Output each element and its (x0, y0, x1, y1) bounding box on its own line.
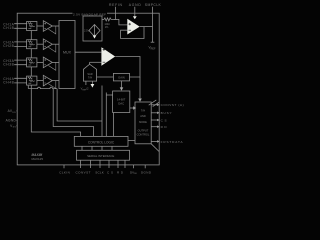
op-amp U3 plus mark (103, 48, 106, 51)
node VREF termination tick (151, 41, 155, 43)
wire control bus w1 from channel chain to control logic (31, 85, 80, 136)
input network box channel 4 (27, 76, 37, 85)
reference diamond symbol (89, 25, 100, 37)
wire CH1 inputs (14, 24, 26, 29)
wire rail left stub (27, 86, 29, 89)
svg-text:CONVST (A): CONVST (A) (161, 103, 184, 107)
svg-text:MAX125: MAX125 (32, 157, 44, 161)
svg-text:FRSTDATA: FRSTDATA (161, 140, 184, 144)
svg-text:GAIN: GAIN (118, 75, 125, 79)
arrowhead BUSY (157, 112, 159, 115)
wire REFCAP stub down to VREF net (152, 7, 154, 42)
wire box1 to buffer A1 (37, 25, 43, 27)
wire PGA net down to control block arrow (139, 77, 141, 99)
wire PGA output right and down (115, 57, 140, 78)
wire DAC to control box with arrow (130, 107, 134, 109)
sample block (house shape) (83, 64, 96, 81)
outer border frame of IC (17, 13, 159, 165)
wire house to gain box (97, 76, 114, 78)
wire box4 to buffer A4 (37, 80, 43, 82)
wire A2 output to MUX (52, 43, 59, 45)
wire A4 output to MUX (52, 80, 59, 82)
wire control bus w3 (57, 89, 102, 121)
bottom pin stubs from serial interface (81, 160, 126, 168)
svg-text:T/H: T/H (141, 109, 145, 113)
wire chain stub box3 down (30, 67, 32, 76)
wire CH2 inputs (14, 42, 26, 47)
arrow into T/H control box (138, 99, 142, 102)
wire DAC bottom down to control logic (113, 113, 115, 137)
pin wire FRSTDATA (151, 140, 157, 142)
wire ref box to resistor (102, 18, 104, 20)
arrow into control box (133, 106, 136, 110)
arrow into DAC (120, 87, 124, 90)
svg-text:DGND: DGND (141, 170, 152, 174)
node junction of REFIN pin (114, 18, 117, 20)
wire VMID rail to PGA minus input (90, 61, 102, 63)
wire AGND stub (16, 119, 19, 121)
svg-text:MUX: MUX (63, 51, 72, 55)
svg-text:T/H: T/H (88, 75, 92, 79)
bottom pin stub CLKIN (63, 165, 65, 168)
svg-text:MODE: MODE (139, 120, 147, 124)
svg-text:CH3B: CH3B (3, 62, 14, 66)
resistors inside box 2 (28, 41, 35, 47)
bus diagonal top right (149, 100, 160, 107)
svg-text:OUTPUT: OUTPUT (138, 128, 149, 132)
wire stubs control logic to serial interface (82, 146, 112, 150)
resistors inside box 1 (28, 23, 35, 29)
mux U1 box (59, 21, 75, 89)
svg-text:CS: CS (161, 118, 167, 122)
wire gain box down to DAC (121, 81, 123, 88)
svg-text:CONTROL LOGIC: CONTROL LOGIC (88, 141, 115, 145)
wire CH4 inputs (14, 78, 26, 83)
wire house bottom right stub (91, 81, 93, 84)
pin wire RD (151, 126, 157, 128)
svg-text:SAR: SAR (87, 72, 92, 76)
arrowhead FRSTDATA (157, 140, 159, 143)
svg-text:SCLK: SCLK (95, 170, 104, 174)
reference block box U5 (83, 16, 102, 41)
svg-text:CS: CS (107, 170, 113, 174)
wire MUX output to PGA plus input (75, 51, 101, 53)
input network box channel 1 (27, 22, 37, 31)
wire CH3 inputs (14, 60, 26, 65)
wire chain stub box2 down (30, 49, 32, 58)
pin wire CONVST (151, 104, 157, 106)
op-amp U2 plus mark (129, 23, 132, 25)
wire house apex to minus rail (89, 62, 91, 64)
wire box2 to buffer A2 (37, 43, 43, 45)
resistors inside box 3 (28, 59, 35, 65)
wire control bus v1 (101, 86, 103, 137)
op-amp A3 input marks (44, 59, 46, 65)
svg-text:SMPCLK: SMPCLK (145, 3, 162, 7)
wire control logic to T/H box (128, 140, 135, 142)
svg-text:RD: RD (117, 170, 124, 174)
op-amp A3 channel buffer (43, 57, 52, 68)
gain box (113, 73, 129, 81)
op-amp A4 input marks (44, 77, 46, 83)
wire control bus w2 (53, 89, 93, 137)
wire A4 feedback (48, 81, 55, 89)
pin wire BUSY (151, 112, 157, 114)
wire resistor to buffer + input (111, 19, 127, 25)
svg-text:SERIAL INTERFACE: SERIAL INTERFACE (87, 154, 114, 158)
bottom pin stub DGND (144, 165, 146, 168)
pin wire CS (151, 119, 157, 121)
svg-text:CH1B: CH1B (3, 26, 14, 30)
op-amp U2 minus mark (129, 29, 132, 31)
op-amp A2 channel buffer (43, 39, 52, 50)
svg-text:REFIN: REFIN (109, 3, 123, 7)
op-amp U3 minus mark (103, 61, 106, 63)
T/H and mode control box (135, 102, 151, 144)
wire house bottom left stub (85, 81, 87, 85)
svg-text:CLKIN: CLKIN (59, 170, 70, 174)
svg-text:DAC: DAC (118, 102, 124, 106)
ground arrow under house (91, 84, 95, 88)
wire A1 feedback (48, 26, 55, 34)
wire chain stub box1 down (30, 31, 32, 40)
svg-text:RD: RD (161, 125, 168, 129)
DAC box (113, 91, 130, 113)
arrowhead RD (157, 125, 159, 128)
svg-text:CH4B: CH4B (3, 81, 14, 85)
input network box channel 3 (27, 58, 37, 67)
wire A3 feedback (48, 62, 55, 70)
wire A1 output to MUX (52, 25, 59, 27)
wire A2 feedback (48, 44, 55, 52)
op-amp A2 input marks (44, 41, 46, 47)
wire buffer output to REFCAP net (140, 26, 153, 28)
wire buffer feedback loop (121, 27, 144, 39)
op-amp A1 input marks (44, 23, 46, 29)
arrowhead CS (157, 119, 159, 122)
svg-text:AND: AND (140, 114, 146, 118)
arrowhead CONVST (157, 104, 159, 107)
wire control bus v2 (105, 93, 107, 137)
op-amp U3 PGA (white) (101, 47, 115, 65)
op-amp U2 reference buffer (white) (127, 19, 139, 35)
wire REFIN stub (115, 7, 117, 20)
svg-text:CONTROL: CONTROL (137, 132, 150, 136)
svg-text:CH2B: CH2B (3, 44, 14, 48)
op-amp A4 channel buffer (43, 75, 52, 86)
wire v2 stub to DAC (106, 94, 112, 96)
svg-text:BUSY: BUSY (161, 111, 172, 115)
bottom pin stub DVDD (133, 165, 135, 168)
input network box channel 2 (27, 40, 37, 49)
note text 2.5V bandgap reference on top border (73, 11, 108, 16)
svg-text:AGND: AGND (129, 3, 142, 7)
control logic box (74, 136, 128, 146)
svg-text:AGND: AGND (6, 118, 17, 122)
wire box3 to buffer A3 (37, 61, 43, 63)
bus diagonal bottom right (151, 144, 159, 152)
svg-text:2.5V: 2.5V (84, 28, 90, 32)
wire VSS stub (16, 125, 19, 127)
op-amp A1 channel buffer (43, 21, 52, 32)
wire AGND stub (134, 7, 136, 17)
wire horizontal control rail with hops (28, 87, 57, 88)
wire A3 output to MUX (52, 61, 59, 63)
resistors inside box 4 (28, 77, 35, 83)
reference diamond arrow (93, 35, 97, 38)
svg-text:CONVST: CONVST (76, 170, 91, 174)
power arrow into buffer top (133, 16, 137, 19)
resistor R1 zigzag (104, 18, 111, 21)
serial interface box (77, 150, 130, 160)
wire AVDD stub (16, 110, 19, 112)
